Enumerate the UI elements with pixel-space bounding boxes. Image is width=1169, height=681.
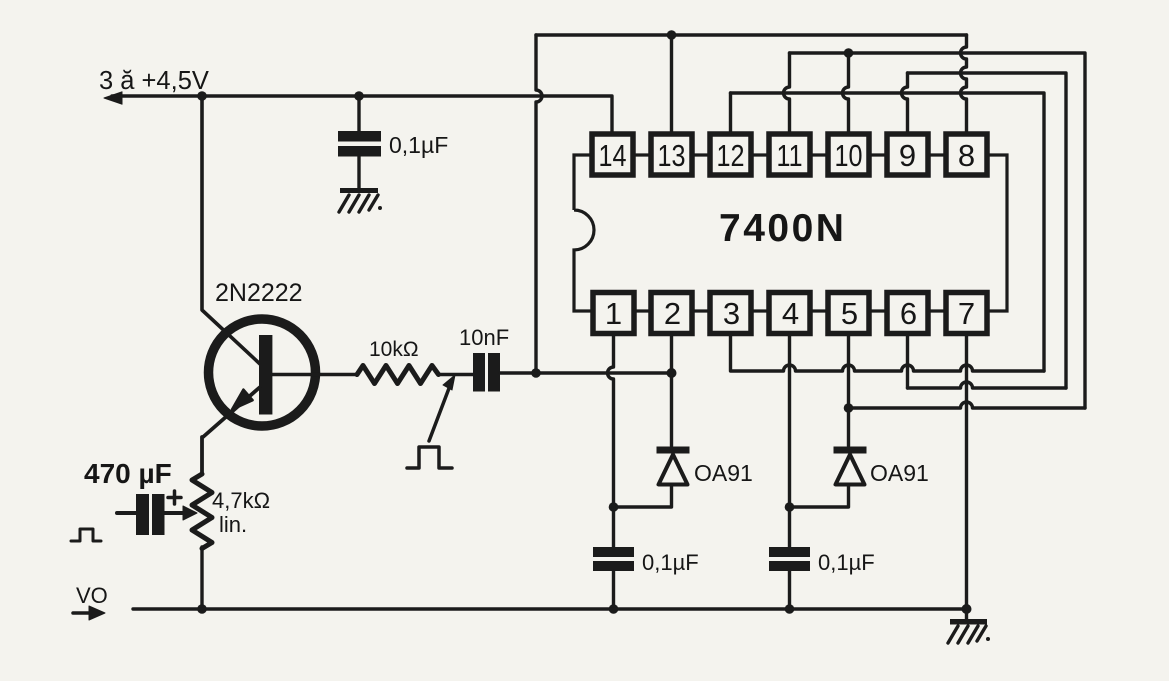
wire base to resistor (272, 373, 357, 377)
wire top line A (536, 33, 967, 36)
transistor emitter arrow (232, 390, 253, 410)
wire pin2 drop to diode (670, 334, 673, 446)
diode D2 OA91 cathode (834, 447, 867, 454)
pin 4 (769, 293, 810, 334)
pin 9 (887, 134, 928, 175)
node junction pin2 (667, 368, 677, 378)
wire pin10 feed (843, 53, 849, 134)
transistor base bar (259, 335, 272, 415)
svg-text:OA91: OA91 (870, 460, 929, 486)
node junction ground (962, 604, 972, 614)
node junction diode1 anode (609, 502, 619, 512)
node junction C3 rail (609, 604, 619, 614)
svg-text:2: 2 (664, 296, 681, 331)
pin 13 (651, 134, 692, 175)
node junction diode2 anode (785, 502, 795, 512)
wire pin5 drop to diode (847, 334, 850, 446)
svg-text:VO: VO (76, 583, 108, 608)
IC U1 pin boxes (592, 134, 987, 334)
capacitor C5 470uF lead (117, 511, 136, 515)
node junction C4 rail (785, 604, 795, 614)
pin 3 (710, 293, 751, 334)
diode D1 OA91 cathode (657, 447, 690, 454)
svg-text:5: 5 (841, 296, 858, 331)
resistor R1 10k (357, 366, 439, 384)
svg-text:3 ă +4,5V: 3 ă +4,5V (99, 67, 209, 95)
capacitor C1 0.1uF lower lead (357, 157, 360, 189)
capacitor C5 470uF plates (136, 494, 165, 535)
IC U1 7400N body (574, 155, 1007, 311)
wire line B pin11 pin10 loop (790, 53, 1086, 408)
wire pin1 drop (608, 334, 614, 547)
pin 14 (592, 134, 633, 175)
svg-text:0,1µF: 0,1µF (642, 550, 699, 575)
svg-text:10kΩ: 10kΩ (369, 338, 419, 361)
wire pot bottom to rail (200, 547, 203, 609)
svg-text:10nF: 10nF (459, 325, 509, 350)
pin 1 (593, 293, 634, 334)
transistor emitter (202, 388, 260, 475)
svg-text:14: 14 (599, 138, 627, 173)
wire pin7 to ground rail (965, 334, 968, 609)
wire pin4 drop (788, 334, 791, 547)
node junction pot rail (197, 604, 207, 614)
pin 7 (946, 293, 987, 334)
wire line B return to pin5 (849, 402, 1086, 408)
svg-text:7: 7 (958, 296, 975, 331)
svg-text:12: 12 (717, 138, 745, 173)
pin 12 (710, 134, 751, 175)
potentiometer R2 4.7k (192, 474, 212, 549)
label C5 plus (168, 491, 181, 504)
wire +4.5V rail to pin 14 (112, 96, 612, 134)
node junction collector (197, 91, 207, 101)
svg-text:13: 13 (658, 138, 686, 173)
pin 8 (946, 134, 987, 175)
svg-text:11: 11 (777, 138, 803, 173)
node VCC input arrow (104, 92, 122, 104)
wire vertical feedback riser (536, 35, 542, 373)
wire diode D1 anode to pin1 (614, 486, 672, 507)
pin 11 (769, 134, 810, 175)
wire pin6 drop (906, 334, 909, 388)
wire line A leg to pin 8 (961, 35, 967, 134)
node junction decoupling cap (354, 91, 364, 101)
pin 6 (887, 293, 928, 334)
svg-text:6: 6 (900, 296, 917, 331)
wire pin13 feed (670, 35, 673, 134)
wire line C pin9 loop (908, 73, 1067, 388)
capacitor C3 0.1uF plates (593, 547, 634, 571)
ground top (339, 188, 382, 212)
svg-text:4,7kΩ: 4,7kΩ (212, 488, 270, 513)
annotation pulse glyph small (71, 529, 101, 541)
svg-text:OA91: OA91 (694, 460, 753, 486)
svg-text:3: 3 (723, 296, 740, 331)
annotation arrow pulse (429, 383, 451, 441)
ground bottom right (948, 609, 990, 643)
svg-text:8: 8 (958, 138, 975, 173)
pin 2 (651, 293, 692, 334)
capacitor C2 10nF plates (473, 353, 500, 392)
svg-text:0,1µF: 0,1µF (818, 550, 875, 575)
capacitor C4 0.1uF plates (769, 547, 810, 571)
pin 5 (828, 293, 869, 334)
wire bottom ground rail (133, 607, 967, 610)
node junction pin5 (844, 403, 854, 413)
wire pin11 feed (784, 53, 790, 134)
node junction pin13 top (667, 30, 677, 40)
pin 10 (828, 134, 869, 175)
svg-text:0,1µF: 0,1µF (389, 132, 448, 158)
wire line D pin12 loop (731, 93, 1045, 371)
wire pin3 line to loop D (731, 334, 1045, 371)
svg-text:10: 10 (835, 138, 863, 173)
node junction pin10 (844, 48, 854, 58)
IC U1 pin numbers (599, 138, 976, 331)
wire pin9 feed (902, 73, 908, 134)
diode D2 OA91 triangle (836, 455, 865, 485)
diode D1 OA91 triangle (659, 455, 688, 485)
svg-text:470 µF: 470 µF (84, 458, 172, 489)
svg-text:9: 9 (899, 138, 916, 173)
wire diode D2 anode to pin4 (790, 486, 849, 507)
svg-text:lin.: lin. (219, 512, 247, 537)
wire signal line 10nF to pins 1-2 (500, 371, 672, 374)
potentiometer wiper arrow (165, 511, 186, 515)
wire resistor to cap 10nF (439, 373, 474, 377)
svg-text:4: 4 (782, 296, 799, 331)
wire pin12 feed (729, 93, 732, 134)
svg-text:1: 1 (605, 296, 622, 331)
svg-text:2N2222: 2N2222 (215, 279, 303, 307)
capacitor C1 0.1uF plates (338, 131, 381, 157)
wire line C return to pin6 (908, 382, 1067, 388)
node VO output arrow (73, 611, 92, 615)
svg-text:7400N: 7400N (719, 207, 846, 250)
capacitor C4 lower lead (788, 571, 791, 609)
annotation pulse glyph (407, 447, 452, 468)
transistor Q1 2N2222 (209, 319, 316, 426)
wire collector drop (202, 96, 260, 364)
node junction top feedback (531, 368, 541, 378)
capacitor C1 0.1uF top lead upper (357, 96, 360, 131)
capacitor C3 lower lead (612, 571, 615, 609)
